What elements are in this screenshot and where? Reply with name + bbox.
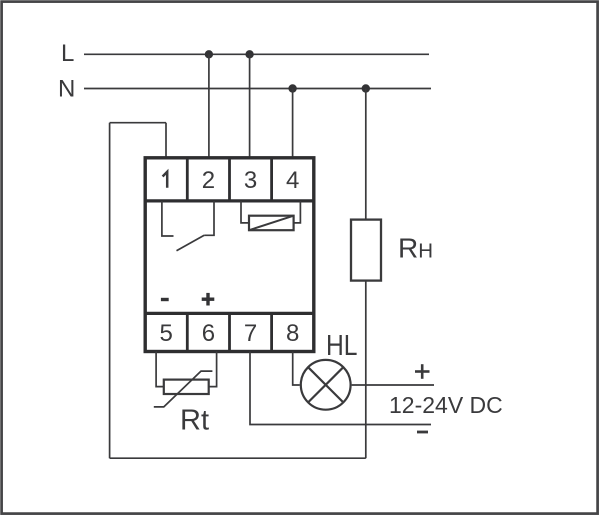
wire L to terminal 3 bbox=[249, 54, 251, 158]
svg-text:2: 2 bbox=[202, 167, 215, 194]
terminal separator 7/8 bottom bbox=[270, 313, 273, 351]
wire top-left horizontal to terminal 1 bbox=[110, 122, 166, 124]
wire pin 8 to lamp bbox=[293, 352, 300, 386]
svg-text:7: 7 bbox=[244, 320, 257, 347]
junction dot on L to terminal 2 bbox=[205, 50, 213, 58]
wire N to resistor Rh top bbox=[365, 89, 367, 220]
terminal separator 2/3 top bbox=[228, 158, 231, 201]
wire thermistor Rt to pin 6 bbox=[209, 352, 217, 387]
wire L line bbox=[84, 53, 429, 55]
junction dot on L to terminal 3 bbox=[245, 50, 253, 58]
junction dot on N to terminal 4 bbox=[288, 84, 296, 92]
svg-text:HL: HL bbox=[326, 330, 358, 362]
wire N to terminal 4 bbox=[292, 89, 294, 158]
coil element diagonal bbox=[249, 216, 294, 231]
coil lead from pin 3 bbox=[241, 201, 249, 223]
lamp HL circle bbox=[301, 360, 351, 410]
device top terminal row bottom edge bbox=[145, 199, 314, 202]
wire down to terminal 1 bbox=[165, 123, 167, 158]
label minus above pin 5 bbox=[161, 298, 169, 301]
terminal separator 6/7 bottom bbox=[228, 313, 231, 351]
terminal separator 1/2 top bbox=[186, 158, 189, 201]
svg-text:4: 4 bbox=[286, 167, 299, 194]
resistor Rh bbox=[351, 220, 381, 281]
wire lamp to plus terminal bbox=[352, 384, 434, 386]
svg-text:3: 3 bbox=[244, 167, 257, 194]
wire left vertical bbox=[109, 123, 111, 459]
terminal separator 5/6 bottom bbox=[186, 313, 189, 351]
svg-text:Rt: Rt bbox=[180, 404, 209, 436]
svg-text:5: 5 bbox=[160, 320, 173, 347]
wire pin 5 to thermistor Rt bbox=[156, 352, 164, 387]
svg-text:L: L bbox=[61, 40, 74, 67]
lamp HL cross stroke 2 bbox=[308, 367, 343, 402]
wire pin 7 to minus rail bbox=[250, 352, 431, 425]
wire N line bbox=[84, 88, 431, 90]
label minus of supply bbox=[417, 431, 428, 434]
pin 1 bbox=[163, 172, 168, 188]
wire Rh bottom down bbox=[365, 281, 367, 459]
terminal separator 3/4 top bbox=[270, 158, 273, 201]
relay contact fixed lead from pin 1 bbox=[162, 201, 174, 236]
thermistor Rt box bbox=[164, 380, 209, 394]
svg-text:8: 8 bbox=[286, 320, 299, 347]
wire bottom horizontal bbox=[110, 457, 366, 459]
label plus above pin 6 bbox=[202, 293, 215, 306]
svg-text:6: 6 bbox=[202, 320, 215, 347]
svg-text:N: N bbox=[58, 76, 75, 103]
thermistor Rt strike line bbox=[154, 371, 213, 407]
relay contact lead from pin 2 bbox=[204, 201, 214, 235]
coil element box bbox=[249, 216, 294, 231]
wire L to terminal 2 bbox=[208, 54, 210, 158]
junction dot on N to resistor Rh bbox=[362, 84, 370, 92]
svg-text:12-24V DC: 12-24V DC bbox=[389, 392, 503, 418]
device bottom terminal row top edge bbox=[145, 312, 314, 315]
relay device body U1 bbox=[145, 158, 314, 352]
label plus of supply bbox=[415, 364, 430, 379]
coil lead to pin 4 bbox=[294, 201, 301, 223]
relay contact blade bbox=[177, 235, 205, 251]
lamp HL cross stroke 1 bbox=[308, 367, 343, 402]
